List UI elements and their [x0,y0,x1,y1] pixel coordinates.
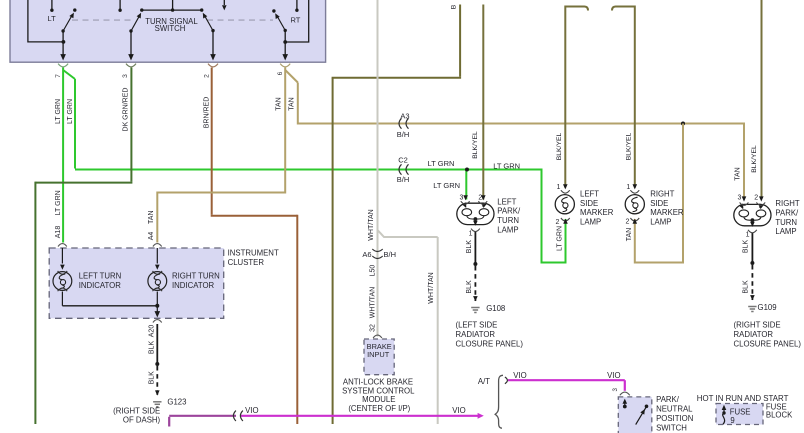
svg-text:MARKER: MARKER [580,208,614,217]
svg-text:VIO: VIO [245,406,258,415]
svg-text:LT: LT [48,14,57,23]
svg-text:G123: G123 [167,398,186,407]
svg-text:32: 32 [369,324,376,332]
svg-text:A4: A4 [148,232,155,241]
svg-text:PARK/: PARK/ [497,207,521,216]
svg-text:RIGHT: RIGHT [775,199,799,208]
svg-text:POSITION: POSITION [656,414,693,423]
svg-text:LT GRN: LT GRN [55,99,62,124]
svg-text:SWITCH: SWITCH [155,24,186,33]
svg-text:BRN/RED: BRN/RED [204,97,211,129]
svg-text:LEFT TURN: LEFT TURN [79,271,122,280]
svg-text:A18: A18 [55,226,62,239]
svg-text:1: 1 [746,232,750,239]
svg-text:PARK/: PARK/ [656,395,680,404]
svg-text:WHT/TAN: WHT/TAN [368,209,375,240]
svg-text:MODULE: MODULE [362,395,395,404]
svg-text:LEFT: LEFT [497,197,516,206]
svg-text:2: 2 [626,219,630,226]
svg-text:BLK/YEL: BLK/YEL [626,132,633,160]
svg-text:FUSE: FUSE [730,407,751,416]
svg-text:LT GRN: LT GRN [55,190,62,215]
svg-text:TAN: TAN [276,97,283,110]
svg-text:L50: L50 [369,265,376,277]
svg-text:SWITCH: SWITCH [656,424,687,433]
svg-text:LT GRN: LT GRN [493,161,520,170]
svg-text:WHT/TAN: WHT/TAN [428,272,435,303]
svg-text:TAN: TAN [734,167,741,180]
svg-text:INDICATOR: INDICATOR [172,281,215,290]
svg-text:SYSTEM CONTROL: SYSTEM CONTROL [342,386,415,395]
svg-text:2: 2 [754,195,758,202]
svg-text:TAN: TAN [626,228,633,241]
svg-text:(CENTER OF I/P): (CENTER OF I/P) [348,404,410,413]
svg-text:LT GRN: LT GRN [428,159,455,168]
svg-text:G109: G109 [758,303,777,312]
svg-text:6: 6 [277,71,284,75]
svg-text:VIO: VIO [513,371,526,380]
svg-text:3: 3 [612,388,619,392]
svg-text:BLK: BLK [148,341,155,355]
svg-text:G108: G108 [486,304,505,313]
svg-text:7: 7 [55,74,62,78]
svg-text:BLK/YEL: BLK/YEL [472,131,479,159]
svg-text:DK GRN/RED: DK GRN/RED [123,88,130,132]
svg-text:BLK/YEL: BLK/YEL [556,132,563,160]
svg-text:A6: A6 [362,250,371,259]
svg-text:MARKER: MARKER [650,208,684,217]
svg-text:CLUSTER: CLUSTER [228,258,265,267]
svg-text:TAN: TAN [148,210,155,223]
svg-text:B/H: B/H [397,130,410,139]
svg-text:1: 1 [557,184,561,191]
svg-text:BLK: BLK [742,280,749,294]
svg-text:NEUTRAL: NEUTRAL [656,404,693,413]
svg-text:RADIATOR: RADIATOR [734,330,774,339]
svg-text:SIDE: SIDE [650,199,668,208]
svg-text:2: 2 [556,219,560,226]
svg-text:(LEFT SIDE: (LEFT SIDE [456,320,498,329]
svg-text:INPUT: INPUT [367,350,390,359]
svg-text:B/H: B/H [397,175,410,184]
svg-text:BLK: BLK [742,240,749,254]
svg-text:BLK/YEL: BLK/YEL [751,145,758,173]
svg-text:PARK/: PARK/ [775,208,799,217]
svg-text:3: 3 [737,195,741,202]
svg-text:LT GRN: LT GRN [557,226,564,251]
svg-text:VIO: VIO [607,371,620,380]
svg-text:RT: RT [291,15,301,24]
svg-text:LAMP: LAMP [650,218,671,227]
svg-text:LEFT: LEFT [580,189,599,198]
svg-text:CLOSURE PANEL): CLOSURE PANEL) [456,339,524,348]
svg-text:3: 3 [122,74,129,78]
svg-text:ANTI-LOCK BRAKE: ANTI-LOCK BRAKE [343,378,413,387]
svg-text:CLOSURE PANEL): CLOSURE PANEL) [734,339,802,348]
svg-text:TURN: TURN [775,218,797,227]
svg-text:BLOCK: BLOCK [766,410,793,419]
svg-text:LT GRN: LT GRN [67,99,74,124]
svg-text:INSTRUMENT: INSTRUMENT [228,248,279,257]
svg-text:LAMP: LAMP [775,227,796,236]
svg-text:1: 1 [469,230,473,237]
svg-text:HOT IN RUN AND START: HOT IN RUN AND START [697,394,789,403]
svg-text:TURN: TURN [497,216,519,225]
svg-text:1: 1 [626,184,630,191]
svg-text:RIGHT TURN: RIGHT TURN [172,271,220,280]
svg-text:TAN: TAN [289,97,296,110]
svg-text:9: 9 [730,416,734,425]
svg-text:(RIGHT SIDE: (RIGHT SIDE [113,406,160,415]
svg-text:B/H: B/H [384,250,397,259]
svg-text:LAMP: LAMP [580,218,601,227]
svg-text:WHT/TAN: WHT/TAN [369,287,376,318]
svg-text:2: 2 [478,195,482,202]
svg-text:B: B [451,4,458,9]
svg-text:LAMP: LAMP [497,226,518,235]
svg-text:RIGHT: RIGHT [650,189,674,198]
svg-text:3: 3 [459,195,463,202]
svg-text:BLK: BLK [466,280,473,294]
svg-text:RADIATOR: RADIATOR [456,330,496,339]
svg-text:(RIGHT SIDE: (RIGHT SIDE [734,320,781,329]
svg-text:VIO: VIO [452,406,465,415]
svg-text:BLK: BLK [466,240,473,254]
svg-text:INDICATOR: INDICATOR [79,281,122,290]
svg-text:SIDE: SIDE [580,199,598,208]
svg-text:BLK: BLK [148,371,155,385]
svg-text:C2: C2 [398,155,408,164]
svg-text:A20: A20 [148,325,155,338]
svg-text:LT GRN: LT GRN [433,181,460,190]
svg-text:2: 2 [204,74,211,78]
svg-text:A/T: A/T [478,377,490,386]
svg-text:OF DASH): OF DASH) [123,415,161,424]
